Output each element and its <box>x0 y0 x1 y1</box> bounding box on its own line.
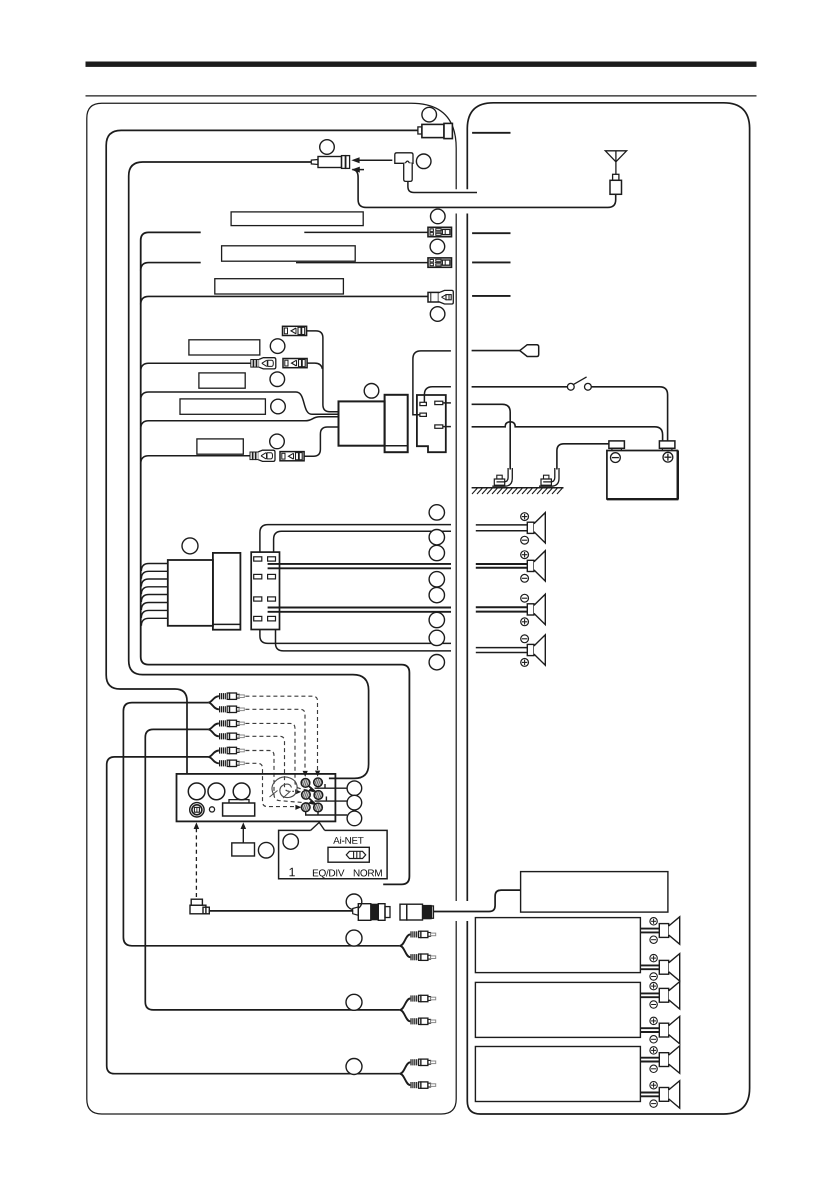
jack leader to circle 2 <box>315 797 348 802</box>
front left speaker <box>476 513 546 545</box>
speaker wire RR- <box>276 630 452 651</box>
battery lead wire with hop <box>472 422 663 441</box>
jack link diagonal 2 <box>309 799 315 804</box>
female spade connector A <box>251 358 276 369</box>
bottom RCA pair B <box>400 995 436 1024</box>
speaker wire FL+ <box>260 525 451 553</box>
harness connector (left block) <box>168 560 213 626</box>
pin3 lead <box>443 402 451 404</box>
amp2 speaker bottom <box>640 1016 679 1043</box>
callout circle (ISO adapter) <box>258 842 274 858</box>
callout circle (bottom RCA B) <box>346 994 362 1010</box>
bullet D wire up into ISO block <box>304 427 338 456</box>
antenna plug (female) <box>311 156 349 169</box>
ignition lead riser (pin1) <box>424 387 451 403</box>
label 1 <box>290 868 295 877</box>
callout circle (speaker wire 8) <box>429 655 444 670</box>
amp1 speaker top <box>640 917 679 944</box>
callout circle (speaker wire 3) <box>429 545 444 560</box>
rear right speaker <box>476 635 546 667</box>
harness pin 1 (left top) <box>420 402 427 405</box>
battery lead riser (pin2) <box>413 351 451 415</box>
subwoofer box <box>521 872 668 913</box>
harness connector (right block) <box>213 553 241 630</box>
front right speaker <box>476 551 546 582</box>
female spade connector D <box>250 450 275 461</box>
Ai-NET label <box>333 837 363 844</box>
RCA jack row3 right <box>314 803 324 812</box>
panel hole 3 <box>233 783 250 800</box>
amplifier box 1 <box>475 918 640 973</box>
wire 1 left segment + merge into bundle lane <box>141 232 410 884</box>
harness pin 3 (right top) <box>435 401 443 404</box>
bullet connector A (male) <box>283 359 307 368</box>
arrow from vehicle antenna lead to plug <box>352 167 365 173</box>
page top thick rule <box>86 62 757 67</box>
callout circle (speaker wire 7) <box>429 630 444 645</box>
callout circle (box A) <box>270 339 285 354</box>
DIN socket <box>190 803 204 817</box>
amp3 speaker top <box>640 1046 679 1073</box>
right panel border <box>467 103 749 1114</box>
fuse holder connector 1 <box>428 227 452 236</box>
battery minus sign <box>611 453 621 463</box>
adapter output stub wire <box>408 181 477 192</box>
callout circle (bottom RCA C) <box>346 1059 362 1075</box>
vehicle antenna symbol <box>605 151 626 195</box>
mini connector female <box>400 904 434 920</box>
label box B <box>199 373 245 388</box>
callout circle (jack row2) <box>347 795 362 810</box>
harness pin 2 (left mid) <box>420 413 427 416</box>
bottom RCA pair C <box>400 1059 436 1088</box>
callout circle (conn1) <box>431 209 446 224</box>
callout circle (box B) <box>271 399 286 414</box>
callout circle (ISO block) <box>364 384 379 399</box>
wire 1 right segment <box>304 231 428 233</box>
bullet top wire to ISO block <box>307 331 339 412</box>
callout circle (conn2) <box>430 239 445 254</box>
EQ/DIV switch box <box>279 822 388 878</box>
callout circle (conn3) <box>430 307 445 322</box>
label box C <box>180 399 265 414</box>
battery <box>607 441 679 500</box>
ground lug 2 <box>539 468 559 486</box>
callout circle (box C) <box>270 434 285 449</box>
wire 2 right segment <box>296 262 428 264</box>
bullet A wire joins vertical <box>307 363 323 369</box>
dashed route plug C1 to jack 32 <box>245 751 314 805</box>
amplifier box 2 <box>475 982 640 1037</box>
bullet connector D (male) <box>280 452 304 461</box>
amp3 speaker bottom <box>640 1081 679 1108</box>
bullet connector pair top (male) <box>283 326 307 335</box>
label EQ/DIV <box>313 869 345 878</box>
leader line (wire3 label) <box>472 295 510 297</box>
label box 2 <box>222 246 356 261</box>
label box 3 <box>215 279 344 294</box>
callout circle (adapter) <box>416 154 431 169</box>
female flag connector 3 <box>428 290 453 304</box>
label box D <box>197 439 243 454</box>
callout circle (antenna jack) <box>422 107 437 122</box>
battery plus sign <box>663 452 673 462</box>
left panel border <box>87 103 456 1114</box>
speaker wire RL- <box>268 611 451 613</box>
callout circle (bottom RCA A) <box>346 930 362 946</box>
jack leader to circle 1 <box>315 784 348 788</box>
jack link diagonal 1 <box>309 786 315 791</box>
ISO power connector block (right half) <box>385 395 408 452</box>
small hole <box>209 807 214 812</box>
speaker connector pins <box>254 557 276 621</box>
vehicle harness connector <box>417 395 446 452</box>
callout circle (jack row1) <box>347 781 362 796</box>
wire 3 <box>141 296 428 304</box>
dashed route plug A2 to jack R1 <box>245 709 307 777</box>
speaker wire RL+ <box>268 607 451 609</box>
Ai-NET cable right <box>434 890 521 911</box>
mini connector male <box>353 904 390 921</box>
callout circle (pair A) <box>270 372 285 387</box>
RCA cable pair A (front) <box>123 693 399 946</box>
amp1 speaker bottom <box>640 954 679 981</box>
wire D from bundle to female spade <box>141 456 250 464</box>
rear left speaker <box>476 594 546 625</box>
speaker multiconnector <box>251 552 279 629</box>
speaker wire RR+ <box>260 630 451 644</box>
wire B to ISO block <box>141 392 339 414</box>
callout circle (speaker wire 5) <box>429 587 444 602</box>
bottom RCA pair A <box>400 931 436 960</box>
coiled cable symbol <box>270 777 298 798</box>
callout circle (Ai-NET cable) <box>346 894 362 910</box>
Ai-NET cable left <box>209 910 353 912</box>
callout circle (speaker wire 4) <box>429 572 444 587</box>
dashed route plug B1 to jack 22 <box>245 723 314 792</box>
ignition switch <box>472 377 668 441</box>
callout circle (antenna plug) <box>320 140 335 155</box>
wire A from bundle to female spade <box>141 363 251 371</box>
spade terminal (ignition) <box>472 345 539 357</box>
callout circle (speaker wire 6) <box>429 612 444 627</box>
battery minus wire <box>557 444 609 470</box>
label box A <box>189 340 260 355</box>
ISO adapter small box <box>232 843 255 856</box>
dashed route plug B2 to jack 21 <box>245 736 301 794</box>
dashed arrow Ai-NET plug to DIN <box>194 822 200 897</box>
callout circle (speaker wire 2) <box>429 530 444 545</box>
fuse holder connector 2 <box>428 258 452 267</box>
callout circle (harness connector) <box>182 538 198 554</box>
pin4 lead <box>443 426 451 428</box>
right-angle mini plug <box>190 899 209 914</box>
wire 2 left segment <box>141 263 201 271</box>
arrow from adapter to plug <box>351 157 392 163</box>
speaker wire FR+ <box>268 563 451 565</box>
speaker wire FR- <box>268 567 451 569</box>
leader line (wire1 label) <box>472 232 510 234</box>
ISO socket on panel <box>223 800 255 816</box>
ground lug 1 <box>492 468 512 486</box>
panel hole 1 <box>188 783 205 800</box>
dashed route plug A1 to jack R2 <box>245 696 320 776</box>
jack leader to circle 3 <box>305 812 347 815</box>
RCA jack row3 left <box>301 803 311 812</box>
amplifier box 3 <box>475 1047 640 1102</box>
ground wire 1 <box>472 404 511 469</box>
EQ/DIV switch <box>328 847 369 862</box>
RCA cable pair C (subwoofer) <box>107 747 400 1073</box>
leader line (antenna lead label) <box>472 132 510 134</box>
harness pin 4 (right low) <box>435 425 443 428</box>
page top thin rule <box>86 95 757 97</box>
callout circle (speaker wire 1) <box>429 505 444 520</box>
RCA jack row1 left <box>301 779 311 788</box>
speaker wire FL- <box>274 531 451 552</box>
chassis ground bar <box>472 488 564 494</box>
JASO adapter <box>395 153 413 182</box>
wire antenna plug loop (lane B) <box>129 162 369 778</box>
arrow ISO adapter to socket <box>241 822 247 843</box>
head unit rear panel <box>177 774 336 822</box>
label box 1 <box>231 212 363 226</box>
callout circle (jack row3) <box>347 811 362 826</box>
leader line (wire2 label) <box>472 261 510 263</box>
label NORM <box>354 869 382 876</box>
wire to antenna jack (loop lane A) <box>106 130 418 774</box>
RCA cable pair B (rear) <box>145 720 399 1010</box>
ISO power connector block (unit side) <box>339 401 385 445</box>
vehicle antenna cable <box>352 170 615 208</box>
RCA jack row1 right <box>314 778 324 787</box>
amp2 speaker top <box>640 982 679 1009</box>
RCA jack row2 right <box>314 791 324 800</box>
RCA jack row2 left <box>302 790 312 799</box>
harness fan wires <box>141 564 167 626</box>
antenna jack connector <box>418 123 453 138</box>
wire C to ISO block <box>141 417 339 429</box>
callout circle (EQ box) <box>283 834 298 849</box>
panel hole 2 <box>208 783 225 800</box>
dashed route plug C2 to jack 31 <box>245 763 301 810</box>
